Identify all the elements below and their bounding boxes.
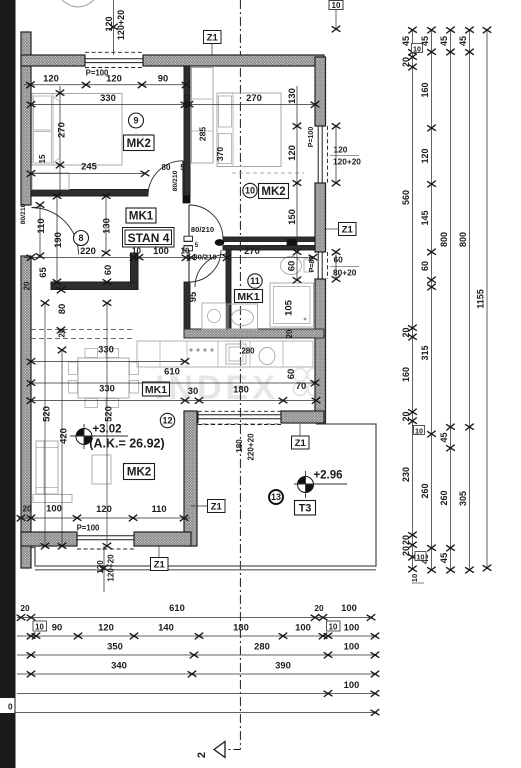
dim texts W2b xyxy=(330,155,359,157)
right dim line 2 xyxy=(431,30,433,570)
room number 13 xyxy=(269,490,283,504)
wc room11 xyxy=(281,257,302,275)
Z1 top leader xyxy=(211,44,213,57)
ticks room9 v270 xyxy=(56,90,65,169)
ticks room10 270 xyxy=(185,101,320,108)
svg-text:45: 45 xyxy=(438,553,449,563)
svg-text:610: 610 xyxy=(164,366,180,377)
svg-text:100: 100 xyxy=(344,622,360,633)
section arrow 2 xyxy=(214,742,225,758)
svg-text:120+20: 120+20 xyxy=(116,10,126,40)
svg-text:105: 105 xyxy=(283,300,294,316)
door D9 room9 arc xyxy=(148,161,183,196)
dashed beam room10 xyxy=(232,172,304,174)
wall room10 south lower line xyxy=(184,246,315,251)
svg-text:MK2: MK2 xyxy=(261,186,285,198)
svg-text:280: 280 xyxy=(254,641,270,652)
dim row A line xyxy=(17,617,373,619)
label MK1 room11 xyxy=(235,290,263,303)
wall bottom exterior west segment xyxy=(21,532,77,546)
svg-text:65: 65 xyxy=(37,267,48,277)
ticks 330b row xyxy=(27,397,321,404)
dim line 245 xyxy=(31,173,145,175)
dim window W4 vline xyxy=(103,546,105,592)
dim vline 520a xyxy=(44,303,46,546)
svg-text:Z1: Z1 xyxy=(154,559,166,570)
right dim ticks 5 xyxy=(483,27,492,572)
svg-text:60: 60 xyxy=(334,255,344,265)
svg-text:MK2: MK2 xyxy=(127,467,151,479)
svg-text:350: 350 xyxy=(107,641,123,652)
wall room9 south xyxy=(31,190,148,197)
svg-text:8: 8 xyxy=(78,233,83,243)
svg-text:10: 10 xyxy=(329,623,338,632)
svg-text:MK1: MK1 xyxy=(145,384,167,396)
svg-text:270: 270 xyxy=(246,92,262,103)
dim texts W3 xyxy=(335,252,337,279)
svg-text:160: 160 xyxy=(420,82,430,97)
kitchen counter xyxy=(137,341,313,367)
svg-text:80/210: 80/210 xyxy=(20,203,27,224)
svg-text:10: 10 xyxy=(417,553,425,562)
svg-text:90: 90 xyxy=(158,73,168,84)
svg-text:305: 305 xyxy=(458,491,468,506)
ticks 420 xyxy=(58,347,67,550)
svg-text:120: 120 xyxy=(96,503,112,514)
svg-text:10: 10 xyxy=(332,1,341,10)
svg-text:80: 80 xyxy=(162,163,171,172)
terrace top edge dashed xyxy=(194,423,281,425)
svg-text:110: 110 xyxy=(35,218,46,233)
svg-text:20: 20 xyxy=(401,411,411,421)
arc artifact top xyxy=(62,0,94,7)
svg-text:20: 20 xyxy=(401,546,411,556)
svg-text:280: 280 xyxy=(241,347,255,356)
door opening gap room10-hall xyxy=(193,236,223,251)
svg-text:120: 120 xyxy=(96,560,105,574)
dim line 330b row xyxy=(31,400,316,402)
ticks room9 330 xyxy=(27,101,190,108)
svg-text:0: 0 xyxy=(8,703,13,712)
svg-text:230: 230 xyxy=(401,467,411,482)
right dim line 1 xyxy=(412,30,414,569)
svg-text:315: 315 xyxy=(420,345,430,360)
svg-text:100: 100 xyxy=(344,641,360,652)
ticks 245 xyxy=(27,170,150,177)
dim line room10 270 xyxy=(189,104,315,106)
svg-text:130: 130 xyxy=(101,218,112,234)
svg-text:80/210: 80/210 xyxy=(172,170,179,191)
dining table xyxy=(78,358,129,398)
svg-text:160: 160 xyxy=(401,367,411,382)
level marker terrace xyxy=(294,471,347,498)
column at room9 door hinge xyxy=(183,196,190,203)
svg-text:Z1: Z1 xyxy=(295,438,307,449)
room number 12 xyxy=(160,413,174,427)
ticks 130 room8 xyxy=(102,193,111,257)
svg-text:190: 190 xyxy=(52,232,63,248)
room number 9 xyxy=(129,113,144,128)
dim box 10 topright xyxy=(329,1,343,10)
tick W4 vline xyxy=(100,565,109,572)
wall bottom exterior east segment xyxy=(134,532,191,546)
sofa room12 xyxy=(36,441,58,494)
row D ticks xyxy=(27,671,380,678)
hob dots xyxy=(189,348,213,351)
right dim line 5 xyxy=(486,30,488,568)
dim texts W2 xyxy=(335,126,337,183)
chairs xyxy=(69,349,139,408)
ticks 110 xyxy=(36,202,45,260)
right dim small box 10 mid xyxy=(414,426,425,435)
svg-text:20: 20 xyxy=(23,281,32,290)
svg-text:11: 11 xyxy=(250,276,260,286)
dim line room9 top xyxy=(24,84,190,86)
svg-text:P=100: P=100 xyxy=(77,524,100,533)
svg-text:30: 30 xyxy=(188,385,198,396)
section centerline horizontal foot xyxy=(214,749,240,751)
wall room8 south jog xyxy=(131,253,139,283)
svg-text:10: 10 xyxy=(415,427,423,436)
door D10 leaf xyxy=(184,236,193,241)
window W3 east bath P=80 xyxy=(316,252,328,279)
label Z1 top xyxy=(204,31,222,44)
row B box 10a xyxy=(33,621,47,631)
svg-text:800: 800 xyxy=(458,232,468,247)
svg-text:120+20: 120+20 xyxy=(107,554,116,582)
svg-text:60: 60 xyxy=(420,261,430,271)
kitchen oval sink xyxy=(259,348,275,365)
dim vline 130 room8 xyxy=(105,196,107,253)
svg-text:560: 560 xyxy=(401,190,411,205)
ticks W3 xyxy=(332,249,341,283)
door D10 arc xyxy=(189,205,223,239)
svg-text:60: 60 xyxy=(102,265,113,275)
column oval in wall xyxy=(215,239,225,246)
ticks 190 xyxy=(53,193,62,286)
svg-text:20: 20 xyxy=(401,327,411,337)
wall top exterior east segment xyxy=(143,55,324,66)
svg-text:120: 120 xyxy=(104,16,114,31)
svg-text:T3: T3 xyxy=(299,503,312,515)
window W1 top P=100 xyxy=(85,52,143,67)
svg-text:120: 120 xyxy=(98,622,114,633)
right dim ticks 2 xyxy=(427,27,436,574)
ticks room10 east v xyxy=(293,123,302,284)
svg-text:120: 120 xyxy=(43,73,59,84)
dim row D line xyxy=(17,673,377,675)
bed room10 xyxy=(217,93,281,167)
svg-text:120: 120 xyxy=(106,73,122,84)
svg-text:120: 120 xyxy=(334,145,348,155)
svg-text:(A.K.= 26.92): (A.K.= 26.92) xyxy=(89,437,164,451)
row B box 10b xyxy=(327,621,341,631)
label MK1 kitchen xyxy=(143,382,170,396)
window W4 bottom P=100 xyxy=(77,532,134,549)
svg-text:220: 220 xyxy=(80,245,96,256)
bath sink room11 xyxy=(228,304,258,329)
right dim ticks 4 xyxy=(465,27,474,574)
svg-text:80/210: 80/210 xyxy=(193,253,216,262)
label Z1 bottom xyxy=(151,558,169,571)
window W2 east P=100 xyxy=(316,126,328,183)
dim vline room9 270 xyxy=(59,86,61,192)
neighbour building section band xyxy=(0,0,16,768)
row E ticks xyxy=(324,690,380,697)
right dim small box 10 top xyxy=(412,44,423,53)
dim row E line xyxy=(17,693,377,695)
svg-text:120: 120 xyxy=(420,148,430,163)
shower room11 xyxy=(270,283,314,327)
terrace west edge xyxy=(193,424,195,547)
svg-text:180: 180 xyxy=(235,439,244,453)
dim line 610 xyxy=(31,382,315,384)
svg-text:80+20: 80+20 xyxy=(333,268,357,278)
ticks 520a xyxy=(41,300,50,550)
wall hall west xyxy=(184,282,190,330)
right dim small box 10 bottom xyxy=(415,552,426,561)
right dim line 3 xyxy=(450,30,452,570)
dim vline 520b xyxy=(106,303,108,546)
dim line room9 330 xyxy=(31,104,185,106)
wall top exterior west segment xyxy=(21,55,85,66)
wall east exterior seg1 xyxy=(315,57,326,126)
dim texts W3b xyxy=(330,266,359,268)
tick W1 vline xyxy=(109,24,118,31)
wall divider room9 room10 xyxy=(184,66,190,196)
svg-text:800: 800 xyxy=(439,232,449,247)
door Dbath arc xyxy=(195,254,228,287)
door D11 leaf xyxy=(184,246,193,251)
svg-text:330: 330 xyxy=(100,92,116,103)
svg-text:270: 270 xyxy=(56,122,67,138)
room number 8 xyxy=(74,231,89,246)
terrace slab outline xyxy=(31,424,376,566)
shelf room12 xyxy=(33,495,72,503)
svg-text:9: 9 xyxy=(133,116,138,126)
svg-text:MK1: MK1 xyxy=(237,291,259,303)
label STAN 4 xyxy=(123,228,175,248)
svg-text:150: 150 xyxy=(286,209,297,225)
svg-text:285: 285 xyxy=(198,127,208,142)
terrace bottom inner line xyxy=(35,569,376,571)
svg-text:45: 45 xyxy=(439,432,449,442)
dim line room12 bottom xyxy=(18,517,190,519)
dim row C line xyxy=(17,654,377,656)
row F text xyxy=(0,698,15,713)
dim row F line xyxy=(16,712,378,714)
svg-text:120+20: 120+20 xyxy=(333,157,361,167)
ticks room9 top xyxy=(26,81,190,88)
dresser room9 xyxy=(32,173,69,190)
svg-text:95: 95 xyxy=(187,292,198,302)
sliding door SD south xyxy=(198,411,281,424)
ticks W2 xyxy=(332,123,341,187)
svg-text:20: 20 xyxy=(401,57,411,67)
svg-text:12: 12 xyxy=(162,416,172,426)
svg-text:370: 370 xyxy=(215,147,225,162)
label T3 room13 xyxy=(295,501,316,516)
dim vline 190 room8 xyxy=(56,196,58,282)
svg-text:100: 100 xyxy=(341,602,357,613)
svg-text:80/210: 80/210 xyxy=(191,225,214,234)
label MK1 room8 xyxy=(126,208,156,223)
label Z1 terrace-n xyxy=(292,436,310,449)
svg-text:Z1: Z1 xyxy=(342,224,354,235)
bed room9 xyxy=(32,94,122,166)
label Z1 sw xyxy=(208,500,226,513)
svg-text:70: 70 xyxy=(296,380,306,391)
wall bath-kitchen south xyxy=(184,329,324,338)
room number 10 xyxy=(243,183,257,197)
svg-text:P=100: P=100 xyxy=(86,69,109,78)
ticks room12 bottom xyxy=(17,515,189,522)
label MK2 room10 xyxy=(259,184,289,199)
svg-text:13: 13 xyxy=(271,492,281,502)
row F ticks xyxy=(371,709,380,716)
svg-text:10: 10 xyxy=(181,247,190,256)
dim vline room10 east xyxy=(296,86,298,280)
dim vline 110 door xyxy=(39,205,41,256)
svg-text:2: 2 xyxy=(196,752,208,758)
svg-text:Z1: Z1 xyxy=(211,501,223,512)
svg-text:45: 45 xyxy=(439,36,449,46)
wall room10 south upper line xyxy=(184,237,315,242)
svg-text:10: 10 xyxy=(35,623,44,632)
svg-text:80: 80 xyxy=(56,304,67,314)
row A ticks xyxy=(17,614,376,621)
svg-text:180: 180 xyxy=(233,384,249,395)
washing machine xyxy=(202,303,226,329)
dim window W1 vline xyxy=(113,0,115,55)
Z1 east leader xyxy=(324,228,339,230)
svg-text:1155: 1155 xyxy=(476,289,486,309)
svg-text:5: 5 xyxy=(180,163,185,172)
ticks 520b xyxy=(103,300,112,550)
door D11 arc xyxy=(189,250,221,282)
svg-text:245: 245 xyxy=(81,161,97,172)
ticks room8 row xyxy=(27,254,318,261)
svg-text:110: 110 xyxy=(151,503,166,514)
svg-text:60: 60 xyxy=(285,369,296,379)
svg-text:100: 100 xyxy=(153,245,169,256)
right dim ticks 3 xyxy=(446,27,455,574)
svg-text:420: 420 xyxy=(58,428,69,444)
wall east exterior seg3 xyxy=(315,279,326,423)
dashed open boundary xyxy=(31,329,135,331)
svg-text:+2.96: +2.96 xyxy=(313,470,342,482)
right dim ticks 1 xyxy=(408,27,417,573)
svg-text:100: 100 xyxy=(295,622,311,633)
svg-text:330: 330 xyxy=(98,344,114,355)
svg-text:45: 45 xyxy=(401,36,411,46)
svg-text:STAN 4: STAN 4 xyxy=(128,231,170,245)
svg-text:100: 100 xyxy=(46,503,62,514)
svg-text:130: 130 xyxy=(286,88,297,104)
dim line room8 row xyxy=(24,257,313,259)
svg-text:140: 140 xyxy=(158,622,174,633)
svg-text:15: 15 xyxy=(38,154,47,163)
Z1 terrace-n leader xyxy=(299,424,301,436)
svg-text:10: 10 xyxy=(132,247,141,256)
dim vline 420 xyxy=(61,350,63,546)
svg-text:270: 270 xyxy=(244,245,260,256)
label MK2 room12 xyxy=(124,464,155,480)
svg-text:90: 90 xyxy=(52,622,62,633)
wall south apartment segment xyxy=(281,411,324,423)
svg-text:10: 10 xyxy=(410,574,419,582)
ticks 60 room8 xyxy=(103,279,112,286)
Z1 bottom leader xyxy=(158,546,160,558)
svg-text:20: 20 xyxy=(314,603,324,613)
dim row B line xyxy=(17,635,377,637)
svg-text:10: 10 xyxy=(245,186,255,196)
svg-text:610: 610 xyxy=(169,602,185,613)
svg-text:20: 20 xyxy=(22,505,32,514)
wardrobe room10 xyxy=(192,68,214,164)
svg-text:60: 60 xyxy=(286,261,297,271)
label Z1 east xyxy=(339,223,357,236)
ticks 610 xyxy=(27,380,320,387)
svg-text:340: 340 xyxy=(111,660,127,671)
label MK2 room9 xyxy=(124,135,155,151)
watermark xyxy=(155,369,321,408)
svg-text:220+20: 220+20 xyxy=(247,433,256,461)
wall left exterior upper xyxy=(21,32,31,205)
svg-text:10: 10 xyxy=(413,45,421,54)
wall east exterior seg2 xyxy=(315,183,326,252)
rug room12 xyxy=(92,455,111,484)
room number 11 xyxy=(248,274,262,288)
svg-text:390: 390 xyxy=(275,660,291,671)
door D8L entry arc xyxy=(32,208,79,255)
wall left exterior lower xyxy=(21,256,31,568)
svg-text:20: 20 xyxy=(285,329,294,338)
svg-text:20: 20 xyxy=(401,535,411,545)
wall room8 south xyxy=(51,282,138,290)
svg-text:260: 260 xyxy=(439,490,449,505)
row C ticks xyxy=(27,652,380,659)
wall room12 east xyxy=(184,411,197,546)
svg-text:520: 520 xyxy=(41,406,52,422)
svg-text:MK1: MK1 xyxy=(129,211,154,223)
svg-text:MK2: MK2 xyxy=(127,138,151,150)
svg-text:45: 45 xyxy=(458,36,468,46)
svg-text:100: 100 xyxy=(344,679,360,690)
svg-text:5: 5 xyxy=(195,242,199,249)
wall bath west xyxy=(226,250,231,330)
ticks 330a xyxy=(27,358,190,365)
row B ticks xyxy=(27,633,380,640)
dim line 330a xyxy=(31,361,185,363)
svg-text:P=100: P=100 xyxy=(308,127,315,148)
svg-text:260: 260 xyxy=(420,483,430,498)
svg-text:180: 180 xyxy=(233,622,249,633)
section centerline xyxy=(239,0,241,750)
kitchen sink unit xyxy=(226,344,246,364)
right dim line 4 xyxy=(469,30,471,570)
svg-text:Z1: Z1 xyxy=(207,32,219,43)
svg-text:120: 120 xyxy=(286,145,297,161)
level marker room12 xyxy=(70,424,128,449)
ticks 80 rot xyxy=(57,287,66,334)
svg-text:20: 20 xyxy=(20,603,30,613)
Z1 sw leader xyxy=(191,505,208,507)
svg-text:520: 520 xyxy=(103,406,114,422)
svg-text:145: 145 xyxy=(420,210,430,225)
column at bath window jamb xyxy=(287,240,297,246)
